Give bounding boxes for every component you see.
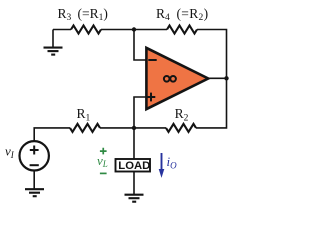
LOAD box xyxy=(116,159,151,172)
wire R3 to node A xyxy=(101,29,134,31)
svg-text:R2: R2 xyxy=(175,106,189,123)
current arrow iO (blue) xyxy=(159,153,177,178)
svg-text:(=R1): (=R1) xyxy=(78,6,108,23)
minus input glyph xyxy=(148,59,156,61)
resistor R3 xyxy=(71,26,101,34)
svg-text:(=R2): (=R2) xyxy=(177,6,209,23)
ground under source xyxy=(25,189,44,196)
node A (inverting input node) xyxy=(132,27,136,31)
wire LOAD to ground xyxy=(133,172,135,195)
resistor R1 xyxy=(70,124,100,132)
label vL with plus minus (green) xyxy=(97,148,108,174)
svg-text:vL: vL xyxy=(97,153,108,169)
wire right rail down xyxy=(196,78,227,128)
ground top-left xyxy=(44,30,63,55)
resistor R4 xyxy=(167,26,197,34)
wire plus branch xyxy=(134,97,146,128)
wire node C to R1 xyxy=(100,127,134,129)
node C (load node) xyxy=(132,126,136,130)
wire source to ground xyxy=(33,171,35,189)
op-amp U1 xyxy=(146,48,208,109)
wire R2 to node C xyxy=(134,127,166,129)
wire op-amp output xyxy=(206,77,227,79)
voltage source vI xyxy=(20,141,49,170)
node B (output node) xyxy=(224,76,228,80)
svg-text:iO: iO xyxy=(167,154,178,170)
svg-text:R3: R3 xyxy=(58,6,72,23)
wire R1 to source xyxy=(34,128,70,142)
wire node A to R4 xyxy=(134,29,167,31)
svg-text:R1: R1 xyxy=(77,106,91,123)
plus input glyph xyxy=(147,93,156,102)
wire minus branch xyxy=(134,30,146,61)
wire node C to LOAD xyxy=(133,128,135,159)
svg-text:R4: R4 xyxy=(156,6,170,23)
ground under LOAD xyxy=(125,195,144,202)
infinity symbol xyxy=(164,76,170,82)
resistor R2 xyxy=(166,124,196,132)
svg-text:vI: vI xyxy=(5,144,15,160)
wire R4 to right rail top xyxy=(197,30,227,78)
svg-text:LOAD: LOAD xyxy=(118,160,150,172)
wire top row left xyxy=(53,29,71,31)
